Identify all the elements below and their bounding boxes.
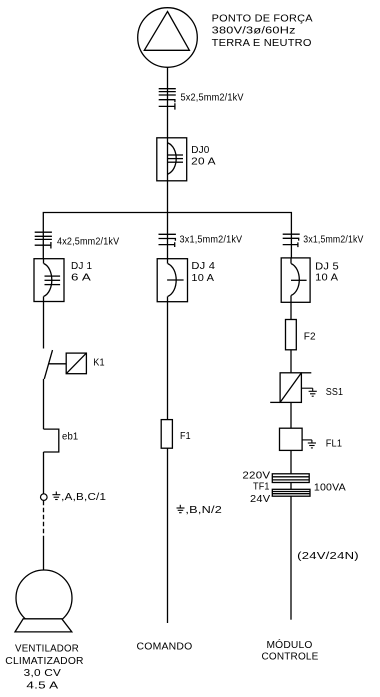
breaker DJ 5 bbox=[281, 258, 310, 302]
svg-text:DJ 1: DJ 1 bbox=[71, 261, 92, 272]
svg-text:20 A: 20 A bbox=[191, 157, 216, 168]
svg-text:MÓDULO: MÓDULO bbox=[266, 638, 312, 651]
wire: TF1 to MODULO bbox=[290, 496, 292, 620]
svg-text:3,0 CV: 3,0 CV bbox=[24, 668, 61, 679]
label MODULO CONTROLE bbox=[261, 638, 318, 662]
wire: DJ5 to F2 bbox=[290, 302, 292, 319]
svg-text:,B,N/2: ,B,N/2 bbox=[185, 505, 222, 516]
svg-text:10 A: 10 A bbox=[315, 273, 338, 284]
svg-text:eb1: eb1 bbox=[62, 431, 78, 442]
fuse F2 bbox=[286, 320, 297, 350]
breaker DJ 4 bbox=[157, 259, 187, 302]
cable marker 3x1,5mm2/1kV (middle) bbox=[159, 234, 176, 247]
ground symbol B,N bbox=[177, 505, 185, 513]
svg-text:COMANDO: COMANDO bbox=[137, 641, 193, 652]
svg-text:220V: 220V bbox=[242, 471, 270, 482]
label DJ 5 10 A bbox=[315, 261, 339, 283]
transformer TF1 primary winding bbox=[272, 474, 309, 483]
motor base trapezoid bbox=[15, 619, 72, 632]
svg-text:VENTILADOR: VENTILADOR bbox=[15, 644, 79, 655]
svg-text:DJ 4: DJ 4 bbox=[191, 261, 215, 272]
link contact to coil bbox=[49, 363, 67, 365]
svg-text:100VA: 100VA bbox=[314, 483, 346, 494]
power source triangle bbox=[144, 12, 189, 51]
power source circle bbox=[138, 8, 198, 68]
svg-text:4x2,5mm2/1kV: 4x2,5mm2/1kV bbox=[57, 237, 119, 248]
wire: SS1 to FL1 bbox=[290, 402, 292, 428]
cable marker 5x2,5mm2/1kV bbox=[159, 89, 176, 110]
coil K1 box bbox=[66, 353, 86, 374]
cable marker 3x1,5mm2/1kV (right) bbox=[283, 234, 300, 247]
svg-text:TF1: TF1 bbox=[253, 481, 270, 492]
filter FL1 bbox=[280, 428, 303, 450]
label VENTILADOR block bbox=[5, 644, 84, 692]
wire: source to DJ0 bbox=[167, 67, 169, 138]
svg-text:4.5 A: 4.5 A bbox=[26, 680, 58, 691]
svg-text:10 A: 10 A bbox=[191, 273, 214, 284]
svg-text:24V: 24V bbox=[250, 494, 270, 505]
motor circle bbox=[16, 570, 72, 626]
wire: F2 to SS1 bbox=[290, 350, 292, 373]
svg-text:K1: K1 bbox=[93, 358, 105, 369]
svg-text:F1: F1 bbox=[180, 431, 191, 442]
svg-text:CLIMATIZADOR: CLIMATIZADOR bbox=[5, 656, 84, 667]
svg-text:(24V/24N): (24V/24N) bbox=[297, 551, 359, 562]
wire: eb1 to terminal bbox=[43, 452, 45, 494]
svg-text:5x2,5mm2/1kV: 5x2,5mm2/1kV bbox=[181, 93, 244, 104]
fuse F1 bbox=[161, 420, 172, 449]
bus line bbox=[43, 213, 291, 259]
wire: DJ4 to F1 bbox=[167, 302, 169, 420]
transformer TF1 secondary winding bbox=[272, 489, 310, 496]
wire: bus to DJ4 bbox=[167, 213, 169, 259]
svg-text:,A,B,C/1: ,A,B,C/1 bbox=[61, 492, 106, 503]
wire: F1 to COMANDO bbox=[167, 448, 169, 623]
ground link FL1 bbox=[302, 440, 316, 448]
wire: DJ1 to contact bbox=[43, 302, 45, 349]
svg-text:FL1: FL1 bbox=[326, 438, 343, 449]
svg-text:3x1,5mm2/1kV: 3x1,5mm2/1kV bbox=[303, 235, 363, 246]
wire: FL1 to TF1 bbox=[290, 450, 292, 473]
label DJ 1 6 A bbox=[71, 261, 92, 284]
dashed wire to motor bbox=[43, 501, 45, 537]
wire between windings bbox=[290, 483, 292, 490]
contact blade of K1 bbox=[44, 350, 52, 379]
svg-text:SS1: SS1 bbox=[326, 387, 344, 398]
wire: DJ0 to bus bbox=[167, 181, 169, 213]
svg-text:TERRA E NEUTRO: TERRA E NEUTRO bbox=[212, 38, 312, 49]
label DJ0 20 A bbox=[191, 145, 216, 168]
svg-text:380V/3ø/60Hz: 380V/3ø/60Hz bbox=[212, 26, 296, 37]
svg-text:PONTO DE FORÇA: PONTO DE FORÇA bbox=[212, 14, 313, 25]
svg-text:DJ 5: DJ 5 bbox=[315, 261, 339, 272]
wire: contact to eb1 bbox=[43, 379, 45, 429]
breaker DJ 1 bbox=[34, 259, 64, 302]
svg-text:6 A: 6 A bbox=[71, 272, 91, 283]
svg-text:3x1,5mm2/1kV: 3x1,5mm2/1kV bbox=[180, 235, 243, 246]
solid-state relay SS1 bbox=[270, 373, 311, 403]
cable marker 4x2,5mm2/1kV bbox=[35, 232, 52, 248]
svg-text:DJ0: DJ0 bbox=[191, 145, 209, 156]
overload eb1 bbox=[44, 429, 59, 452]
svg-text:CONTROLE: CONTROLE bbox=[261, 651, 318, 662]
label DJ 4 10 A bbox=[191, 261, 215, 284]
wire: to motor bbox=[43, 537, 45, 570]
ground link SS1 bbox=[301, 388, 316, 396]
label 220V TF1 24V bbox=[242, 471, 270, 505]
terminal circle node bbox=[41, 494, 48, 501]
svg-text:F2: F2 bbox=[304, 332, 316, 343]
breaker DJ0 bbox=[157, 138, 187, 181]
ground symbol A,B,C bbox=[52, 492, 60, 500]
label: PONTO DE FORCA block bbox=[212, 14, 313, 49]
